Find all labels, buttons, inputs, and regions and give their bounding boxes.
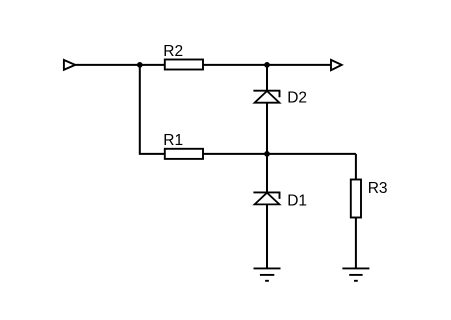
wire from top-left junction down and right to R1 xyxy=(140,65,165,154)
svg-text:R3: R3 xyxy=(368,180,388,197)
wire middle row down to R3 xyxy=(355,154,357,180)
ground under D1 xyxy=(254,268,281,280)
wire D1 to ground xyxy=(266,204,268,268)
wire R2 to output xyxy=(203,64,331,66)
svg-text:R1: R1 xyxy=(163,132,183,149)
zener diode D1 xyxy=(253,192,280,204)
svg-text:R2: R2 xyxy=(163,43,183,60)
wire middle junction down to D1 xyxy=(266,154,268,193)
node junction top-left xyxy=(137,62,143,68)
resistor R3 xyxy=(351,180,361,218)
node junction middle xyxy=(264,151,270,157)
node junction top-right xyxy=(264,62,270,68)
ground under R3 xyxy=(342,268,369,280)
resistor R2 xyxy=(165,60,203,70)
wire R3 to ground xyxy=(355,218,357,269)
input terminal arrow xyxy=(64,60,75,70)
wire D2 down to middle junction xyxy=(266,103,268,154)
svg-text:D1: D1 xyxy=(287,193,307,210)
wire R1 to R3 column xyxy=(203,153,356,155)
wire top junction down to D2 xyxy=(266,65,268,91)
svg-text:D2: D2 xyxy=(287,89,307,106)
resistor R1 xyxy=(165,149,203,159)
zener diode D2 xyxy=(253,91,280,103)
output terminal arrow xyxy=(331,60,342,70)
wire input to R2 xyxy=(75,64,165,66)
